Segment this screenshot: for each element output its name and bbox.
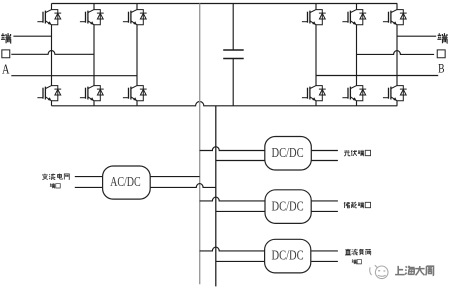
label port B char 口	[437, 50, 445, 58]
DC/DC3 upper wire from DC+ rail (hops DC- rail)	[200, 247, 265, 251]
svg-text:A: A	[2, 61, 10, 77]
DC load port label line1: 直流负荷	[345, 249, 351, 255]
IGBT Q8 lower leg1 bridge B	[302, 86, 326, 101]
AC grid port label line2: 端口	[50, 183, 55, 188]
port A phase wire 1	[13, 35, 51, 37]
IGBT Q9 upper leg2 bridge B	[342, 10, 366, 25]
IGBT Q7 upper leg1 bridge B	[302, 10, 326, 25]
watermark logo icon (circular emoji face)	[370, 265, 388, 278]
capacitor C1 plates	[223, 50, 244, 59]
label port A char 端	[1, 33, 11, 43]
DC/DC converter U4 (DC load)	[265, 239, 311, 273]
port B phase wire 2 (hops leg3)	[357, 51, 435, 55]
DC+ top bus	[52, 3, 398, 5]
port A phase wire 3	[11, 75, 137, 77]
svg-text:DC/DC: DC/DC	[272, 247, 304, 263]
svg-text:DC/DC: DC/DC	[272, 145, 304, 161]
IGBT Q3 upper leg2 bridge A	[80, 10, 104, 25]
IGBT Q6 lower leg3 bridge A	[123, 86, 147, 101]
IGBT Q10 lower leg2 bridge B	[342, 86, 366, 101]
DC/DC2 upper wire from DC+ rail (hops DC- rail)	[200, 197, 265, 201]
IGBT Q11 upper leg3 bridge B	[383, 10, 407, 25]
AC/DC converter U1	[103, 166, 151, 199]
AC/DC right lower wire (hops DC+ rail) to DC- rail	[150, 184, 216, 188]
watermark logo text 上海大周	[395, 266, 433, 276]
DC/DC1 lower wire from DC- rail	[216, 160, 265, 162]
port A phase wire 2 (hops leg1)	[11, 50, 94, 54]
svg-text:DC/DC: DC/DC	[272, 198, 304, 214]
bridge A leg 2 vertical segments	[93, 4, 95, 106]
DC/DC converter U3 (storage)	[265, 190, 311, 224]
AC grid port label line1: 交流电网	[42, 174, 48, 180]
DC/DC1 upper wire from DC+ rail (hops DC- rail)	[200, 147, 265, 151]
PV port label: 光伏端口	[344, 150, 350, 156]
port B phase wire 3	[316, 75, 438, 77]
AC/DC right upper wire to DC+ rail	[150, 176, 200, 178]
svg-text:AC/DC: AC/DC	[110, 175, 141, 190]
storage port label: 储能端口	[344, 202, 350, 208]
IGBT Q2 lower leg1 bridge A	[37, 86, 61, 101]
DC/DC2 lower wire from DC- rail	[216, 210, 265, 212]
center DC+ rail (grey) down to converters	[199, 4, 201, 285]
AC grid input wires	[75, 177, 103, 188]
bridge A leg 1 vertical segments	[52, 4, 398, 106]
DC/DC converter U2 (PV)	[265, 137, 312, 171]
label port A char 口	[2, 50, 10, 58]
DC load port label line2: 端口	[352, 259, 357, 264]
port B phase wire 1	[397, 35, 436, 37]
IGBT Q4 lower leg2 bridge A	[80, 86, 104, 101]
label port B char 端	[437, 33, 447, 43]
svg-text:B: B	[438, 62, 445, 76]
bridge B leg 1 vertical segments	[315, 4, 317, 106]
bridge B leg 2 vertical segments	[356, 4, 358, 106]
bridge A leg 3 vertical segments	[136, 4, 138, 106]
IGBT Q5 upper leg3 bridge A	[123, 10, 147, 25]
center DC- rail down to converters	[215, 106, 217, 287]
DC/DC1 output wires	[311, 151, 338, 161]
IGBT Q1 upper leg1 bridge A	[37, 10, 61, 25]
bridge B leg 3 vertical segments	[396, 4, 398, 106]
DC-link capacitor C1 leads	[232, 4, 234, 106]
IGBT Q12 lower leg3 bridge B	[383, 86, 407, 101]
DC/DC3 output wires	[311, 251, 338, 262]
DC/DC3 lower wire from DC- rail	[216, 260, 265, 262]
DC/DC2 output wires	[311, 201, 338, 212]
DC- bottom bus (hops over center DC+ rail)	[52, 102, 398, 106]
